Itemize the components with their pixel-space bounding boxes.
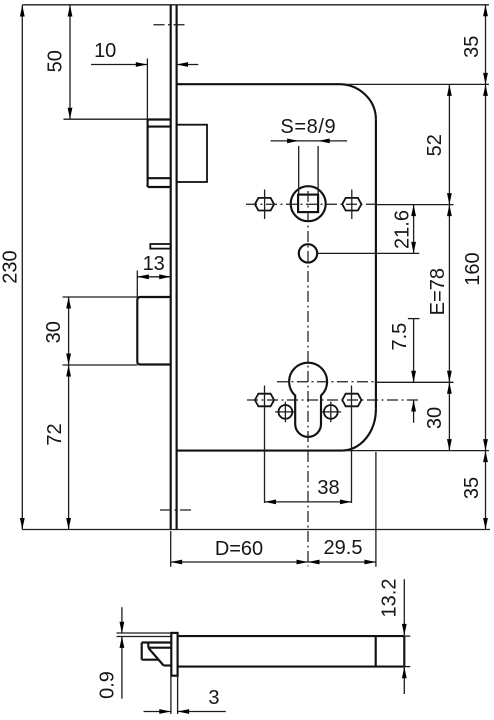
top extension line bbox=[22, 4, 489, 6]
svg-text:21.6: 21.6 bbox=[392, 210, 414, 249]
small hole lower-right with centerlines bbox=[321, 402, 342, 423]
faceplate top screw centerline bbox=[154, 24, 188, 26]
svg-text:35: 35 bbox=[461, 36, 483, 58]
svg-text:0.9: 0.9 bbox=[97, 671, 119, 699]
dimension 3 bbox=[144, 676, 226, 714]
svg-text:13.2: 13.2 bbox=[379, 579, 401, 618]
plan view: faceplate edge lines left bbox=[117, 633, 172, 637]
lock case outline bbox=[177, 84, 376, 450]
latch bolt head bbox=[148, 120, 171, 188]
dimension 52 bbox=[424, 84, 452, 204]
dimension 230 bbox=[0, 5, 25, 530]
spindle square hole bbox=[298, 195, 318, 213]
dimension 30 left bbox=[43, 297, 137, 365]
svg-text:E=78: E=78 bbox=[427, 268, 449, 315]
extension line small hole (21.6) bbox=[317, 252, 419, 254]
bottom extension line bbox=[22, 529, 490, 531]
dimension 13.2 bbox=[379, 579, 411, 694]
svg-text:160: 160 bbox=[462, 252, 484, 285]
dimension 72 bbox=[44, 365, 71, 530]
vertical centerline of lock bbox=[307, 191, 309, 567]
svg-text:D=60: D=60 bbox=[215, 538, 263, 560]
plan view: faceplate strip bbox=[171, 633, 177, 676]
handle screw hole upper-left bbox=[255, 190, 274, 220]
dimension 38 bbox=[265, 386, 352, 505]
svg-text:S=8/9: S=8/9 bbox=[280, 116, 336, 138]
latch tail block bbox=[177, 125, 207, 182]
small hole below follower bbox=[299, 244, 317, 262]
dimension 21.6 bbox=[392, 205, 416, 254]
svg-text:52: 52 bbox=[424, 134, 446, 156]
deadbolt head bbox=[137, 297, 170, 365]
case top extension right bbox=[345, 83, 489, 85]
dimension E=78 bbox=[427, 205, 452, 383]
euro profile cylinder hole bbox=[289, 363, 327, 437]
dimension 160 bbox=[462, 84, 488, 450]
svg-text:38: 38 bbox=[317, 477, 339, 499]
small hole lower-left with centerlines bbox=[275, 402, 296, 423]
dimension S=8/9 bbox=[271, 116, 348, 195]
dimension 10 bbox=[91, 40, 198, 120]
dimension 29.5 bbox=[308, 452, 376, 567]
handle screw hole upper-right bbox=[342, 190, 361, 220]
svg-text:29.5: 29.5 bbox=[324, 537, 363, 559]
plan view: latch bolt with bevel bbox=[142, 643, 172, 666]
svg-text:30: 30 bbox=[424, 407, 446, 429]
guard pin bbox=[150, 244, 170, 249]
faceplate (front plate, side view) bbox=[171, 5, 177, 530]
svg-text:50: 50 bbox=[45, 50, 67, 72]
svg-text:13: 13 bbox=[143, 253, 165, 275]
dimension D=60 bbox=[171, 531, 308, 567]
horizontal centerline through cylinder screws bbox=[247, 399, 419, 401]
svg-text:230: 230 bbox=[0, 250, 22, 283]
dimension 35 top bbox=[461, 5, 488, 85]
dimension 13 bbox=[137, 253, 170, 297]
svg-text:10: 10 bbox=[94, 40, 116, 62]
cylinder screw hole lower-left bbox=[255, 394, 274, 407]
plan view: lock case bar bbox=[178, 636, 405, 667]
dimension 30 right bbox=[424, 382, 452, 450]
dimension 50 bbox=[45, 5, 148, 119]
cylinder screw hole lower-right bbox=[342, 394, 361, 407]
svg-text:35: 35 bbox=[461, 477, 483, 499]
dimension 35 bottom bbox=[461, 451, 488, 530]
spindle follower circle bbox=[291, 186, 326, 221]
faceplate bottom screw centerline bbox=[160, 509, 191, 511]
horizontal centerline through cylinder bbox=[277, 381, 454, 384]
svg-text:30: 30 bbox=[43, 321, 65, 343]
svg-text:72: 72 bbox=[44, 423, 66, 445]
svg-text:3: 3 bbox=[208, 687, 219, 709]
horizontal centerline through follower bbox=[246, 203, 454, 205]
dimension 0.9 bbox=[97, 607, 125, 699]
case bottom extension right bbox=[343, 450, 489, 452]
dimension 7.5 bbox=[389, 319, 420, 423]
svg-text:7.5: 7.5 bbox=[389, 323, 411, 351]
